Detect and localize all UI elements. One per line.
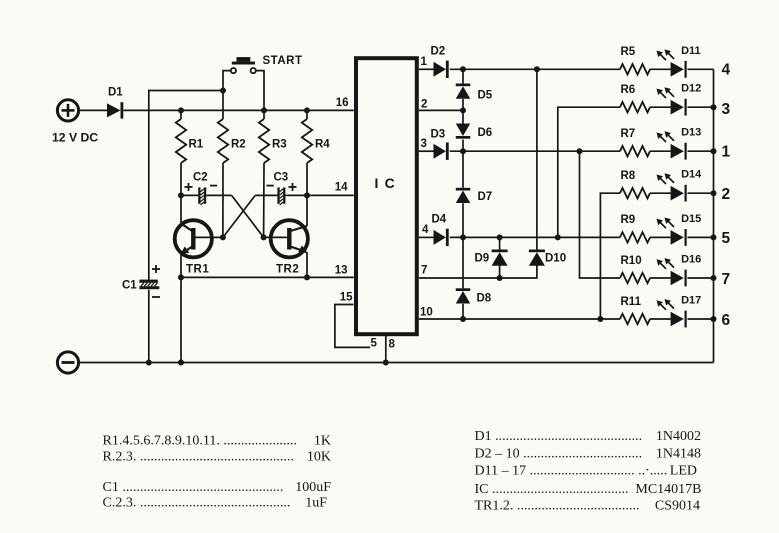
node: R1 / C2 junction bbox=[178, 192, 184, 198]
svg-text:100uF: 100uF bbox=[295, 480, 331, 495]
node: D9 anode bbox=[497, 275, 503, 281]
node: R10 branch bbox=[577, 148, 583, 154]
wire: D10 cathode up to pin 1 row bbox=[536, 69, 538, 249]
wire bbox=[650, 277, 671, 279]
svg-text:LED: LED bbox=[670, 464, 697, 479]
svg-text:D6: D6 bbox=[478, 127, 493, 139]
wire bbox=[80, 109, 108, 111]
wire: R8 branch to pin 10 row bbox=[600, 193, 620, 319]
transistor TR2 bbox=[264, 220, 308, 257]
svg-text:TR2: TR2 bbox=[276, 264, 299, 276]
svg-text:1N4148: 1N4148 bbox=[656, 447, 701, 462]
svg-text:D7: D7 bbox=[478, 191, 493, 203]
wire bbox=[650, 318, 671, 320]
node: R4 / C3 / pin14 junction bbox=[304, 192, 310, 198]
node: TR1 base bbox=[220, 234, 226, 240]
wire bbox=[688, 192, 714, 194]
wire bbox=[462, 110, 464, 123]
svg-text:1: 1 bbox=[722, 144, 731, 161]
wire bbox=[462, 69, 464, 83]
wire: down to ground rail bbox=[180, 277, 182, 362]
svg-text:R1.4.5.6.7.8.9.10.11. ........: R1.4.5.6.7.8.9.10.11. ..................… bbox=[103, 434, 297, 449]
svg-text:R2: R2 bbox=[231, 139, 246, 151]
svg-text:CS9014: CS9014 bbox=[655, 499, 700, 514]
node: R6 branch bbox=[555, 234, 561, 240]
svg-text:1K: 1K bbox=[314, 434, 331, 449]
svg-text:D10: D10 bbox=[545, 253, 566, 265]
diode D8 bbox=[456, 288, 471, 303]
svg-text:12 V DC: 12 V DC bbox=[52, 131, 98, 145]
svg-text:10: 10 bbox=[420, 307, 433, 319]
svg-text:D15: D15 bbox=[681, 213, 701, 225]
node: bus bbox=[711, 275, 717, 281]
wire: LED common bus to ground rail bbox=[713, 69, 715, 362]
op-amp U1: IC MC14017B body bbox=[356, 58, 417, 334]
svg-text:D11 – 17 .....................: D11 – 17 .............................. … bbox=[475, 464, 668, 479]
LED D15 bbox=[657, 218, 687, 246]
svg-text:D2: D2 bbox=[431, 46, 446, 58]
svg-text:C1: C1 bbox=[122, 280, 137, 292]
svg-text:R.2.3. .......................: R.2.3. .................................… bbox=[103, 450, 294, 465]
svg-text:IC ...........................: IC .....................................… bbox=[475, 482, 629, 497]
svg-text:14: 14 bbox=[335, 182, 348, 194]
wire bbox=[462, 237, 464, 288]
transistor TR1 bbox=[175, 220, 223, 257]
resistor R1 bbox=[176, 119, 186, 163]
svg-text:3: 3 bbox=[421, 138, 427, 150]
LED D17 bbox=[657, 299, 687, 327]
node: R1 / main rail junction bbox=[178, 107, 184, 113]
diode D9 bbox=[492, 250, 508, 266]
polarity - of C1 bbox=[152, 296, 160, 298]
node: D6 cathode / pin 3 row bbox=[460, 148, 466, 154]
svg-text:D14: D14 bbox=[681, 169, 702, 181]
svg-text:R9: R9 bbox=[621, 214, 636, 226]
capacitor C2 bbox=[181, 187, 232, 205]
node: C1 / ground bbox=[146, 360, 152, 366]
wire: R3 to TR2 base bbox=[263, 163, 265, 237]
node: START / R2 junction bbox=[220, 88, 226, 94]
wire bbox=[462, 140, 464, 152]
node: TR1 emitter junction bbox=[178, 274, 184, 280]
svg-text:D8: D8 bbox=[477, 293, 492, 305]
svg-text:16: 16 bbox=[336, 97, 349, 109]
wire bbox=[650, 236, 671, 238]
node: D10 branch junction bbox=[534, 66, 540, 72]
svg-text:R3: R3 bbox=[272, 139, 287, 151]
wire bbox=[462, 304, 464, 319]
svg-text:I C: I C bbox=[375, 175, 397, 191]
wire bbox=[650, 150, 671, 152]
capacitor C3 bbox=[255, 187, 307, 205]
polarity - of C3 bbox=[267, 185, 274, 187]
svg-text:R10: R10 bbox=[621, 255, 642, 267]
svg-text:C3: C3 bbox=[274, 172, 289, 184]
wire bbox=[180, 110, 182, 119]
svg-text:C2: C2 bbox=[193, 172, 208, 184]
wire: TR1 collector bbox=[180, 195, 182, 224]
svg-text:TR1: TR1 bbox=[186, 264, 209, 276]
diode D3 bbox=[434, 143, 449, 160]
svg-text:D9: D9 bbox=[475, 253, 490, 265]
resistor R2 bbox=[218, 119, 228, 163]
wire bbox=[462, 203, 464, 237]
svg-text:4: 4 bbox=[722, 62, 731, 79]
node: R8 branch / pin 10 row bbox=[597, 316, 603, 322]
svg-text:D1: D1 bbox=[108, 87, 123, 99]
node: bus bbox=[711, 234, 717, 240]
wire bbox=[688, 68, 714, 70]
wire bbox=[688, 150, 714, 152]
node: bus bbox=[711, 190, 717, 196]
diode D7 bbox=[456, 188, 471, 203]
wire bbox=[450, 150, 620, 152]
wire: D1 to IC pin 16 bbox=[124, 109, 354, 111]
svg-text:1N4002: 1N4002 bbox=[656, 429, 701, 444]
wire: pin 4 bbox=[419, 236, 434, 238]
svg-text:4: 4 bbox=[422, 224, 429, 236]
LED D13 bbox=[657, 131, 687, 159]
svg-text:D12: D12 bbox=[681, 83, 701, 95]
wire bbox=[688, 318, 714, 320]
polarity - of C2 bbox=[210, 185, 217, 187]
svg-text:R4: R4 bbox=[315, 139, 330, 151]
wire bbox=[450, 68, 620, 70]
svg-text:D1 ...........................: D1 .....................................… bbox=[475, 429, 643, 444]
svg-text:R5: R5 bbox=[621, 46, 636, 58]
node: TR2 emitter junction bbox=[304, 274, 310, 280]
svg-text:7: 7 bbox=[421, 265, 427, 277]
svg-text:C1 ...........................: C1 .....................................… bbox=[103, 480, 284, 495]
svg-text:3: 3 bbox=[722, 101, 731, 118]
wire: pin 15 strap bbox=[335, 305, 370, 348]
svg-text:R7: R7 bbox=[621, 128, 636, 140]
wire bbox=[462, 151, 464, 188]
node: bus bbox=[711, 316, 717, 322]
node: TR1 emitter / ground bbox=[178, 360, 184, 366]
resistor R8 bbox=[620, 188, 650, 198]
wire: pin 2 bbox=[419, 109, 463, 111]
svg-text:5: 5 bbox=[722, 230, 731, 247]
wire bbox=[650, 68, 671, 70]
svg-text:D13: D13 bbox=[681, 127, 701, 139]
wire bbox=[450, 236, 620, 238]
wire bbox=[650, 192, 671, 194]
resistor R10 bbox=[620, 273, 650, 283]
wire: pin 3 bbox=[419, 150, 434, 152]
diode D5 bbox=[456, 84, 471, 99]
wire: pin 10 bbox=[419, 318, 620, 320]
svg-text:2: 2 bbox=[421, 99, 427, 111]
resistor R9 bbox=[620, 232, 650, 242]
LED D11 bbox=[657, 49, 687, 77]
svg-text:START: START bbox=[263, 55, 303, 67]
wire bbox=[688, 106, 714, 108]
diode D1 bbox=[107, 102, 123, 118]
node: IC pin 8 / ground bbox=[383, 360, 389, 366]
svg-text:D3: D3 bbox=[431, 129, 446, 141]
wire: ground rail bbox=[80, 362, 714, 364]
wire bbox=[650, 106, 671, 108]
wire: R10 branch from pin 3 row bbox=[580, 151, 621, 278]
wire bbox=[222, 91, 224, 120]
node: bus bbox=[711, 104, 717, 110]
resistor R6 bbox=[620, 102, 650, 112]
wire bbox=[462, 99, 464, 110]
wire bbox=[688, 236, 714, 238]
terminal: +12V supply bbox=[57, 100, 78, 121]
wire: to IC pin 14 bbox=[307, 194, 354, 196]
wire: cross-coupling C2 to TR2 base bbox=[232, 195, 264, 237]
wire bbox=[263, 110, 265, 119]
diode D6 bbox=[456, 124, 471, 139]
wire: TR2 collector bbox=[306, 195, 308, 226]
resistor R4 bbox=[302, 119, 312, 163]
svg-text:D2 – 10 ......................: D2 – 10 ................................… bbox=[475, 447, 643, 462]
wire: pin 8 to ground bbox=[385, 334, 387, 363]
wire: TR2 emitter bbox=[306, 252, 308, 277]
wire: pin 7 to D10 anode bbox=[419, 265, 537, 278]
svg-text:R11: R11 bbox=[621, 296, 642, 308]
LED D12 bbox=[657, 87, 687, 115]
svg-text:R1: R1 bbox=[189, 139, 204, 151]
svg-text:2: 2 bbox=[722, 186, 731, 203]
svg-text:7: 7 bbox=[722, 271, 731, 288]
svg-text:8: 8 bbox=[389, 339, 396, 351]
node: D8 anode / pin 10 row bbox=[460, 316, 466, 322]
svg-text:D4: D4 bbox=[432, 214, 447, 226]
polarity + of C3 bbox=[289, 183, 297, 191]
svg-text:1: 1 bbox=[421, 56, 428, 68]
wire bbox=[499, 237, 501, 249]
wire bbox=[499, 265, 501, 278]
wire: R6 branch to pin 4 row bbox=[558, 107, 620, 237]
diode D2 bbox=[434, 61, 449, 78]
resistor R7 bbox=[620, 146, 650, 156]
svg-text:D11: D11 bbox=[681, 45, 701, 57]
svg-text:R6: R6 bbox=[621, 84, 636, 96]
svg-text:1uF: 1uF bbox=[305, 496, 327, 511]
LED D16 bbox=[657, 258, 687, 286]
svg-text:6: 6 bbox=[722, 312, 731, 329]
wire: R2 to TR1 base bbox=[222, 163, 224, 237]
wire bbox=[688, 277, 714, 279]
svg-text:D5: D5 bbox=[478, 90, 493, 102]
polarity + of C2 bbox=[185, 183, 193, 191]
svg-text:5: 5 bbox=[371, 338, 378, 350]
svg-text:10K: 10K bbox=[307, 450, 331, 465]
wire bbox=[306, 163, 308, 195]
node: D5 anode / D6 anode bbox=[460, 107, 466, 113]
svg-text:13: 13 bbox=[335, 265, 348, 277]
resistor R5 bbox=[620, 64, 650, 74]
svg-text:D16: D16 bbox=[681, 254, 701, 266]
wire: pin 1 bbox=[419, 68, 434, 70]
wire bbox=[306, 110, 308, 119]
node: D7 anode / pin 4 row bbox=[460, 234, 466, 240]
wire: START left contact bbox=[223, 71, 231, 91]
wire: emitter rail to IC pin 13 bbox=[181, 276, 354, 278]
svg-text:TR1.2. .......................: TR1.2. .................................… bbox=[475, 499, 640, 514]
wire: cross-coupling C3 to TR1 base bbox=[223, 195, 255, 237]
node: R4 junction bbox=[304, 107, 310, 113]
resistor R11 bbox=[620, 314, 650, 324]
node: TR2 base bbox=[261, 234, 267, 240]
svg-text:D17: D17 bbox=[681, 295, 701, 307]
node: D9 cathode bbox=[497, 234, 503, 240]
wire: TR1 emitter bbox=[180, 254, 182, 278]
svg-text:MC14017B: MC14017B bbox=[635, 482, 701, 497]
resistor R3 bbox=[259, 119, 269, 163]
terminal: 0V (negative) bbox=[57, 352, 78, 373]
wire: START branch down to C1 bbox=[149, 91, 223, 281]
svg-text:15: 15 bbox=[340, 292, 353, 304]
diode D4 bbox=[434, 229, 449, 246]
polarity + of C1 bbox=[152, 265, 160, 273]
pushbutton START bbox=[231, 57, 256, 73]
node: bus bbox=[711, 148, 717, 154]
node: R3 / START junction bbox=[261, 107, 267, 113]
wire: START right contact bbox=[256, 71, 264, 111]
node: D5 cathode junction bbox=[460, 66, 466, 72]
diode D10 bbox=[529, 250, 545, 266]
wire bbox=[180, 163, 182, 195]
LED D14 bbox=[657, 173, 687, 201]
svg-text:C.2.3. .......................: C.2.3. .................................… bbox=[103, 496, 291, 511]
svg-text:R8: R8 bbox=[621, 170, 636, 182]
capacitor C1 bbox=[139, 280, 159, 363]
